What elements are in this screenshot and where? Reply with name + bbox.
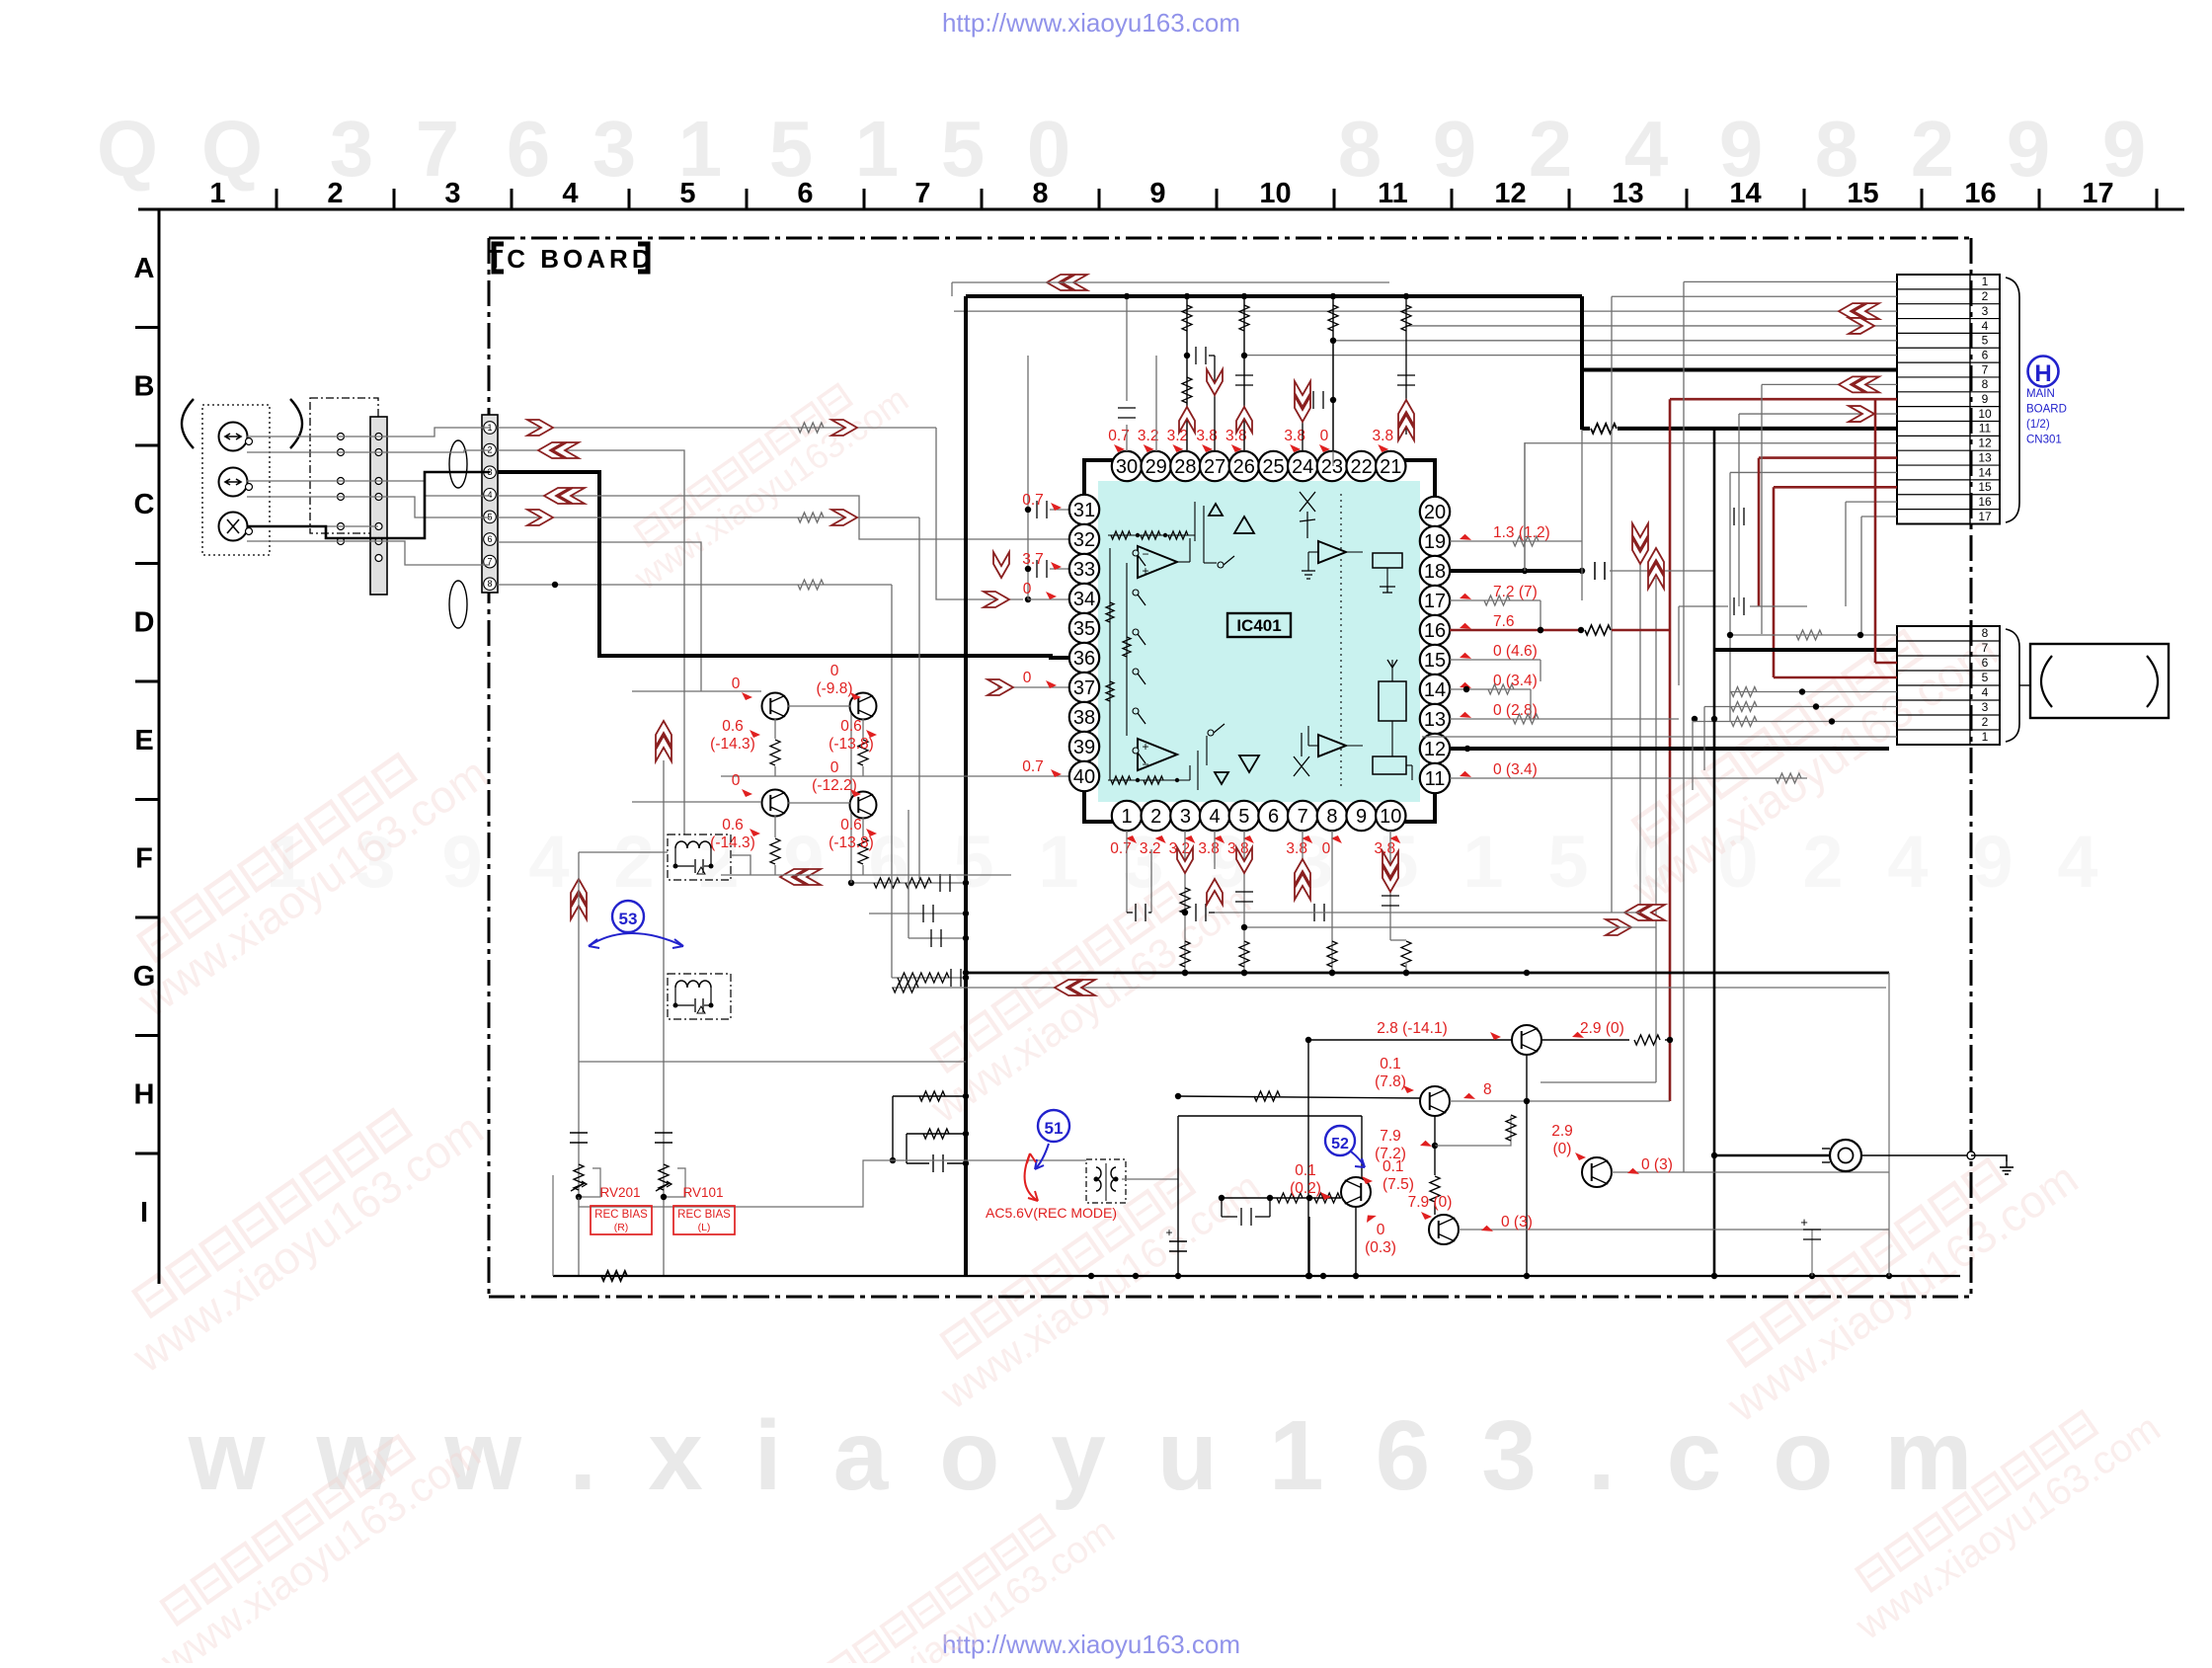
svg-text:0: 0 — [732, 772, 741, 789]
svg-text:18: 18 — [1424, 561, 1446, 583]
svg-text:27: 27 — [1204, 456, 1225, 478]
svg-text:14: 14 — [1978, 465, 1992, 479]
svg-text:3: 3 — [1982, 700, 1989, 714]
svg-text:(0.2): (0.2) — [1290, 1180, 1321, 1197]
svg-text:32: 32 — [1073, 529, 1095, 551]
svg-text:0.6: 0.6 — [840, 817, 862, 834]
svg-text:http://www.xiaoyu163.com: http://www.xiaoyu163.com — [942, 8, 1240, 38]
svg-text:22: 22 — [1350, 456, 1372, 478]
svg-text:10: 10 — [1259, 178, 1291, 209]
svg-text:5: 5 — [679, 178, 695, 209]
svg-text:(0): (0) — [1553, 1141, 1572, 1157]
svg-text:G: G — [133, 961, 156, 993]
svg-text:23: 23 — [1321, 456, 1343, 478]
svg-text:(7.5): (7.5) — [1382, 1176, 1414, 1193]
svg-text:4: 4 — [528, 821, 569, 903]
svg-text:16: 16 — [1978, 495, 1992, 509]
svg-text:0.1: 0.1 — [1295, 1162, 1316, 1179]
svg-text:(-12.2): (-12.2) — [812, 777, 857, 794]
svg-text:16: 16 — [1424, 620, 1446, 642]
svg-text:0: 0 — [830, 663, 839, 679]
svg-text:+: + — [1142, 740, 1148, 754]
svg-text:6: 6 — [1982, 348, 1989, 361]
svg-text:7.6: 7.6 — [1493, 613, 1515, 630]
svg-text:6: 6 — [487, 534, 492, 544]
svg-text:B: B — [134, 371, 155, 403]
svg-text:1: 1 — [1462, 821, 1503, 903]
svg-text:(R): (R) — [614, 1222, 629, 1233]
svg-text:8: 8 — [1326, 806, 1337, 828]
svg-text:15: 15 — [1424, 650, 1446, 672]
svg-text:14: 14 — [1424, 679, 1446, 701]
svg-text:3: 3 — [444, 178, 460, 209]
svg-text:1: 1 — [1982, 730, 1989, 744]
svg-text:(1/2): (1/2) — [2026, 419, 2050, 431]
svg-text:4: 4 — [1210, 806, 1221, 828]
svg-text:6: 6 — [1268, 806, 1279, 828]
svg-text:1: 1 — [1982, 275, 1989, 288]
svg-text:21: 21 — [1380, 456, 1401, 478]
svg-text:24: 24 — [1292, 456, 1313, 478]
svg-text:2: 2 — [1982, 715, 1989, 729]
svg-text:3: 3 — [1982, 304, 1989, 318]
svg-text:12: 12 — [1978, 437, 1992, 450]
svg-text:0.7: 0.7 — [1022, 758, 1044, 775]
svg-text:4: 4 — [487, 490, 492, 500]
svg-text:BOARD: BOARD — [2026, 404, 2067, 416]
svg-text:7.9 (0): 7.9 (0) — [1408, 1194, 1453, 1211]
svg-text:8: 8 — [1338, 105, 1382, 193]
svg-text:4: 4 — [1887, 821, 1928, 903]
svg-text:(-13.8): (-13.8) — [829, 736, 874, 753]
svg-text:4: 4 — [1982, 685, 1989, 699]
svg-text:10: 10 — [1978, 407, 1992, 421]
svg-text:0: 0 — [1320, 428, 1329, 444]
svg-text:9: 9 — [1433, 105, 1477, 193]
svg-text:9: 9 — [1356, 806, 1367, 828]
svg-text:TC BOARD: TC BOARD — [487, 244, 654, 274]
svg-text:D: D — [134, 607, 155, 639]
svg-text:0: 0 — [732, 675, 741, 692]
svg-text:H: H — [134, 1079, 155, 1111]
svg-text:9: 9 — [783, 821, 824, 903]
svg-text:0: 0 — [1023, 670, 1032, 686]
svg-text:2: 2 — [613, 821, 654, 903]
svg-text:36: 36 — [1073, 648, 1095, 670]
svg-text:7.9: 7.9 — [1380, 1128, 1401, 1145]
svg-text:35: 35 — [1073, 618, 1095, 640]
svg-text:REC BIAS: REC BIAS — [677, 1209, 731, 1221]
svg-text:0.7: 0.7 — [1110, 840, 1132, 857]
svg-text:3.7: 3.7 — [1022, 551, 1044, 568]
svg-text:(7.8): (7.8) — [1375, 1073, 1406, 1090]
svg-text:A: A — [134, 253, 155, 284]
svg-text:5: 5 — [941, 105, 986, 193]
svg-text:11: 11 — [1979, 422, 1992, 436]
svg-text:3.2: 3.2 — [1138, 428, 1159, 444]
svg-text:5: 5 — [953, 821, 993, 903]
svg-text:7: 7 — [914, 178, 930, 209]
svg-text:13: 13 — [1978, 450, 1992, 464]
svg-text:20: 20 — [1424, 502, 1446, 523]
svg-text:(-14.3): (-14.3) — [710, 834, 755, 851]
svg-text:(L): (L) — [698, 1222, 711, 1233]
svg-text:+: + — [1165, 1226, 1172, 1239]
svg-text:6: 6 — [797, 178, 813, 209]
svg-text:E: E — [134, 725, 153, 756]
svg-text:2.8 (-14.1): 2.8 (-14.1) — [1377, 1020, 1448, 1037]
svg-text:Q: Q — [97, 105, 158, 193]
svg-text:0 (3): 0 (3) — [1501, 1214, 1533, 1231]
svg-text:+: + — [1142, 564, 1148, 578]
svg-text:0.1: 0.1 — [1380, 1056, 1401, 1072]
svg-text:0: 0 — [1322, 840, 1331, 857]
svg-text:0 (3.4): 0 (3.4) — [1493, 673, 1538, 689]
svg-text:2.9: 2.9 — [1551, 1123, 1573, 1140]
svg-text:−: − — [1142, 547, 1148, 561]
svg-text:5: 5 — [1238, 806, 1249, 828]
svg-text:RV201: RV201 — [599, 1185, 640, 1200]
svg-text:16: 16 — [1964, 178, 1996, 209]
svg-text:C: C — [134, 489, 155, 520]
svg-text:40: 40 — [1073, 766, 1095, 788]
svg-text:4: 4 — [1982, 319, 1989, 333]
svg-text:0.7: 0.7 — [1022, 492, 1044, 509]
svg-text:34: 34 — [1073, 589, 1095, 610]
svg-text:37: 37 — [1073, 677, 1095, 699]
svg-text:9: 9 — [441, 821, 482, 903]
svg-text:8: 8 — [1982, 626, 1989, 640]
svg-text:7: 7 — [1982, 641, 1989, 655]
svg-text:0.6: 0.6 — [840, 718, 862, 735]
svg-text:6: 6 — [1982, 656, 1989, 670]
svg-text:+: + — [1800, 1215, 1808, 1230]
svg-text:17: 17 — [1978, 510, 1992, 523]
svg-text:0.1: 0.1 — [1382, 1158, 1404, 1175]
svg-text:7: 7 — [1982, 362, 1989, 376]
svg-text:AC5.6V(REC MODE): AC5.6V(REC MODE) — [986, 1205, 1117, 1221]
svg-text:3.8: 3.8 — [1373, 428, 1394, 444]
svg-text:5: 5 — [1982, 671, 1989, 684]
svg-text:3: 3 — [592, 105, 637, 193]
svg-text:0: 0 — [1377, 1222, 1385, 1238]
svg-text:5: 5 — [1982, 334, 1989, 348]
svg-text:8: 8 — [1483, 1081, 1492, 1098]
svg-text:RV101: RV101 — [682, 1185, 723, 1200]
svg-text:10: 10 — [1380, 806, 1401, 828]
svg-text:1: 1 — [855, 105, 900, 193]
svg-text:30: 30 — [1116, 456, 1138, 478]
svg-text:29: 29 — [1145, 456, 1167, 478]
svg-text:11: 11 — [1378, 178, 1408, 209]
svg-text:11: 11 — [1425, 768, 1446, 790]
svg-text:15: 15 — [1847, 178, 1878, 209]
svg-text:7: 7 — [1298, 806, 1308, 828]
svg-text:2: 2 — [1982, 289, 1989, 303]
svg-text:(-14.3): (-14.3) — [710, 736, 755, 753]
svg-text:5: 5 — [1547, 821, 1588, 903]
svg-text:0.6: 0.6 — [722, 718, 744, 735]
svg-text:2: 2 — [1150, 806, 1161, 828]
svg-text:9: 9 — [1982, 392, 1989, 406]
svg-text:38: 38 — [1073, 707, 1095, 729]
svg-text:2.9 (0): 2.9 (0) — [1580, 1020, 1624, 1037]
svg-text:H: H — [2034, 360, 2051, 387]
svg-text:8: 8 — [1032, 178, 1048, 209]
svg-text:53: 53 — [619, 910, 638, 928]
svg-text:9: 9 — [1149, 178, 1165, 209]
svg-text:3.8: 3.8 — [1286, 840, 1307, 857]
svg-text:0.6: 0.6 — [722, 817, 744, 834]
svg-text:0 (3.4): 0 (3.4) — [1493, 761, 1538, 778]
svg-text:(0.3): (0.3) — [1365, 1239, 1396, 1256]
svg-text:2: 2 — [1911, 105, 1955, 193]
svg-text:REC BIAS: REC BIAS — [594, 1209, 648, 1221]
svg-text:3: 3 — [1180, 806, 1191, 828]
svg-text:17: 17 — [2082, 178, 2113, 209]
svg-text:1: 1 — [209, 178, 225, 209]
svg-text:(-9.8): (-9.8) — [816, 680, 852, 697]
svg-text:33: 33 — [1073, 559, 1095, 581]
svg-text:F: F — [135, 843, 153, 875]
svg-text:8: 8 — [1982, 377, 1989, 391]
svg-text:26: 26 — [1233, 456, 1255, 478]
svg-text:13: 13 — [1424, 709, 1446, 731]
svg-text:9: 9 — [1972, 821, 2013, 903]
svg-text:39: 39 — [1073, 737, 1095, 758]
svg-text:3.8: 3.8 — [1198, 840, 1220, 857]
svg-text:12: 12 — [1424, 739, 1446, 760]
svg-text:1: 1 — [1121, 806, 1132, 828]
svg-text:I: I — [140, 1197, 148, 1229]
svg-text:52: 52 — [1331, 1136, 1349, 1152]
svg-text:6: 6 — [507, 105, 551, 193]
svg-text:CN301: CN301 — [2026, 435, 2062, 446]
svg-text:8: 8 — [487, 579, 492, 589]
svg-text:4: 4 — [2057, 821, 2097, 903]
svg-text:31: 31 — [1073, 500, 1095, 521]
svg-text:IC401: IC401 — [1236, 616, 1281, 635]
svg-text:28: 28 — [1174, 456, 1196, 478]
svg-text:0 (3): 0 (3) — [1641, 1156, 1673, 1173]
svg-text:9: 9 — [2007, 105, 2051, 193]
svg-text:0: 0 — [1023, 581, 1032, 597]
svg-text:(-13.8): (-13.8) — [829, 834, 874, 851]
svg-text:15: 15 — [1978, 480, 1992, 494]
svg-text:2: 2 — [1802, 821, 1843, 903]
svg-text:51: 51 — [1045, 1119, 1064, 1138]
svg-text:14: 14 — [1729, 178, 1761, 209]
svg-text:2: 2 — [1529, 105, 1573, 193]
svg-text:0 (4.6): 0 (4.6) — [1493, 643, 1538, 660]
svg-text:25: 25 — [1262, 456, 1284, 478]
svg-text:12: 12 — [1494, 178, 1526, 209]
svg-text:19: 19 — [1424, 531, 1446, 553]
svg-text:17: 17 — [1424, 591, 1446, 612]
svg-text:2: 2 — [327, 178, 343, 209]
svg-text:3.2: 3.2 — [1140, 840, 1161, 857]
svg-text:0: 0 — [830, 759, 839, 776]
svg-text:1.3 (1.2): 1.3 (1.2) — [1493, 524, 1550, 541]
svg-text:1: 1 — [1038, 821, 1078, 903]
svg-text:4: 4 — [562, 178, 578, 209]
svg-text:13: 13 — [1612, 178, 1643, 209]
svg-text:MAIN: MAIN — [2026, 388, 2055, 400]
svg-text:3.2: 3.2 — [1167, 428, 1189, 444]
